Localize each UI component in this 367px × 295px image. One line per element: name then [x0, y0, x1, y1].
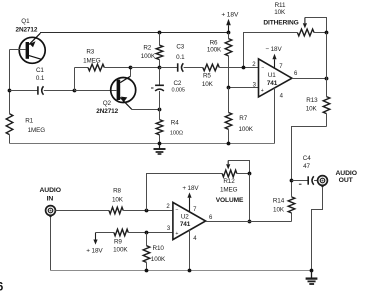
svg-text:100K: 100K	[239, 126, 254, 133]
wire R11 to output node	[326, 33, 328, 79]
svg-text:U2: U2	[181, 214, 189, 221]
svg-text:R6: R6	[210, 39, 218, 46]
ground (mid rail)	[159, 144, 161, 149]
node Q2 emitter / C2 / R4	[158, 108, 162, 112]
svg-text:100K: 100K	[113, 247, 128, 254]
wire left bus vertical	[9, 50, 11, 114]
wire bottom ground rail	[51, 270, 312, 272]
wire U1 output	[292, 78, 327, 80]
svg-text:C4: C4	[303, 155, 311, 162]
svg-text:DITHERING: DITHERING	[263, 20, 298, 27]
resistor R10	[146, 233, 148, 246]
wire Q2 emitter	[132, 109, 160, 111]
node rail/R4	[158, 142, 162, 146]
svg-text:OUT: OUT	[339, 177, 354, 184]
svg-text:AUDIO: AUDIO	[335, 170, 356, 177]
svg-text:+ 18V: + 18V	[86, 247, 103, 254]
svg-text:2N2712: 2N2712	[96, 108, 118, 115]
svg-text:C2: C2	[173, 80, 181, 87]
node C4/R13/R14	[290, 179, 294, 183]
potentiometer R12	[222, 170, 237, 177]
svg-text:100K: 100K	[141, 53, 156, 60]
resistor R4	[159, 110, 161, 120]
resistor R7	[228, 88, 230, 113]
svg-text:10K: 10K	[112, 197, 124, 204]
node R3/C1/Q2-base junction	[73, 89, 77, 93]
resistor R5	[203, 64, 220, 71]
svg-text:R9: R9	[114, 239, 122, 246]
resistor R9	[96, 232, 114, 234]
capacitor C2	[159, 68, 161, 86]
power -18V (U1 pin7)	[274, 59, 276, 68]
wire volume feedback riser	[147, 174, 223, 211]
svg-text:741: 741	[180, 221, 191, 228]
svg-text:100Ω: 100Ω	[170, 130, 183, 136]
resistor R3	[74, 68, 76, 91]
svg-text:R3: R3	[86, 48, 94, 55]
wire U1 pin4 to ground rail	[274, 88, 276, 144]
node R12 right terminal	[248, 172, 252, 176]
wire top supply rail	[40, 32, 229, 34]
svg-text:C1: C1	[36, 67, 44, 74]
wire Q1 base to left bus	[10, 49, 26, 51]
svg-text:Q1: Q1	[21, 18, 30, 25]
wire dithering feedback	[244, 33, 298, 68]
svg-text:+: +	[175, 231, 178, 237]
svg-text:R4: R4	[171, 119, 179, 126]
node top rail R2	[158, 31, 162, 35]
svg-text:1MEG: 1MEG	[28, 127, 46, 134]
svg-text:C3: C3	[176, 43, 184, 50]
wire U1 pin3	[229, 87, 259, 89]
wire U2 pin4 to ground rail	[189, 230, 191, 271]
svg-text:0.005: 0.005	[171, 88, 185, 94]
svg-text:R10: R10	[153, 245, 165, 252]
svg-text:R14: R14	[273, 198, 285, 205]
svg-text:Q2: Q2	[103, 100, 112, 107]
svg-text:−: −	[175, 208, 178, 214]
svg-text:10K: 10K	[202, 81, 214, 88]
wire R12 to output	[249, 174, 251, 222]
wire audio in to R8	[55, 210, 109, 212]
capacitor C1	[10, 90, 38, 92]
node R8/feedback	[145, 209, 149, 213]
svg-text:U1: U1	[268, 72, 276, 79]
node R12/output	[248, 220, 252, 224]
svg-text:IN: IN	[47, 195, 54, 202]
transistor Q2	[111, 78, 136, 103]
svg-text:R5: R5	[203, 73, 211, 80]
svg-text:R1: R1	[25, 118, 33, 125]
svg-text:10K: 10K	[274, 9, 286, 16]
svg-text:1MEG: 1MEG	[83, 57, 101, 64]
capacitor C4	[292, 180, 308, 182]
svg-text:10K: 10K	[273, 206, 285, 213]
node R9/R10/pin3	[145, 231, 149, 235]
resistor R8	[109, 207, 123, 214]
node R11 right terminal	[325, 31, 329, 35]
svg-text:R11: R11	[275, 2, 286, 9]
svg-text:+: +	[261, 88, 264, 94]
wire U2 output	[206, 221, 292, 223]
node C1 left junction	[8, 89, 12, 93]
svg-text:2N2712: 2N2712	[16, 26, 38, 33]
svg-text:R2: R2	[143, 44, 151, 51]
jack AUDIO IN	[46, 206, 56, 216]
node feedback/pin2	[242, 66, 246, 70]
node R6/R7/pin3	[227, 86, 231, 90]
svg-text:−: −	[261, 66, 264, 72]
svg-text:− 18V: − 18V	[265, 46, 282, 53]
node rail/U2 pin4	[188, 269, 192, 273]
svg-text:100K: 100K	[151, 256, 166, 263]
wire Q2 base	[75, 90, 117, 92]
svg-text:0.1: 0.1	[36, 75, 45, 82]
svg-text:VOLUME: VOLUME	[216, 197, 244, 204]
node +18V/R6	[227, 31, 231, 35]
node U1 output	[325, 77, 329, 81]
svg-text:741: 741	[267, 80, 278, 87]
resistor R1	[6, 114, 13, 135]
svg-text:AUDIO: AUDIO	[39, 187, 60, 194]
node rail/R7	[227, 142, 231, 146]
svg-text:R8: R8	[113, 188, 121, 195]
node rail/R10	[145, 269, 149, 273]
svg-text:+ 18V: + 18V	[182, 185, 199, 192]
svg-text:R12: R12	[223, 178, 235, 185]
resistor R13	[326, 79, 328, 97]
node bottom rail / ground	[310, 269, 314, 273]
svg-text:100K: 100K	[207, 47, 222, 54]
svg-text:0.1: 0.1	[176, 54, 185, 61]
node R2/C3/C2 junction	[158, 66, 162, 70]
wire Q2 collector to node	[130, 68, 132, 77]
capacitor C3	[160, 67, 178, 69]
jack AUDIO OUT	[318, 176, 328, 186]
wire node to R2 bottom	[131, 67, 160, 69]
wire audio-out ground drop	[312, 188, 323, 271]
transistor Q1	[19, 37, 45, 63]
svg-text:R7: R7	[239, 115, 247, 122]
svg-text:1MEG: 1MEG	[220, 187, 238, 194]
svg-text:+ 18V: + 18V	[221, 12, 239, 19]
wire audio-in ground drop	[50, 218, 52, 271]
svg-text:R13: R13	[306, 97, 318, 104]
svg-text:6: 6	[0, 282, 3, 294]
power +18V (bottom)	[95, 233, 97, 240]
wire mid ground rail	[10, 143, 275, 145]
op-amp U1 741	[259, 59, 292, 97]
op-amp U2 741	[173, 202, 206, 239]
resistor R6	[228, 33, 230, 39]
ground (bottom right)	[311, 271, 313, 278]
resistor R14	[291, 213, 293, 222]
svg-text:10K: 10K	[306, 106, 318, 113]
wire R13 to C4 node	[292, 127, 327, 181]
power +18V (U2 pin7)	[189, 198, 191, 212]
power +18V (top)	[228, 25, 230, 32]
svg-text:47: 47	[303, 163, 310, 170]
potentiometer R11	[297, 29, 314, 36]
node R3/Q2 collector	[129, 66, 133, 70]
resistor R2	[159, 33, 161, 46]
